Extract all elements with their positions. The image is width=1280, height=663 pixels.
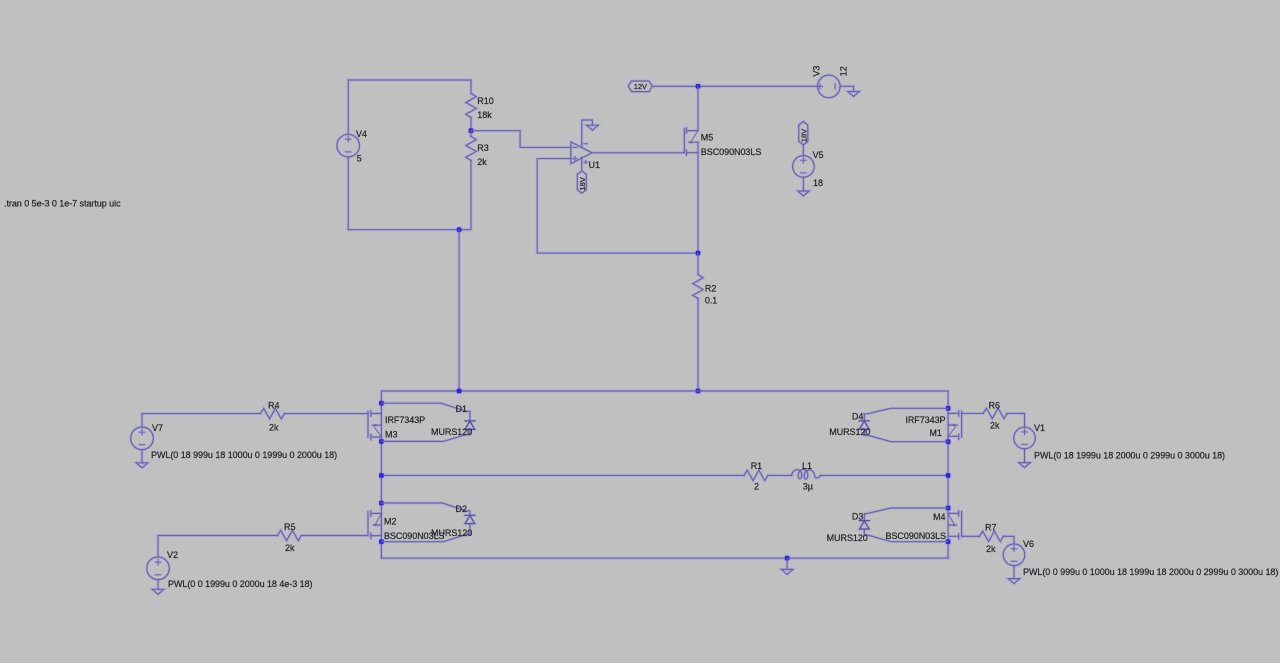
- svg-text:18: 18: [813, 178, 823, 188]
- svg-text:V6: V6: [1023, 539, 1034, 549]
- svg-text:3µ: 3µ: [803, 482, 813, 492]
- svg-text:18V: 18V: [799, 128, 808, 142]
- svg-text:IRF7343P: IRF7343P: [385, 415, 425, 425]
- svg-text:R10: R10: [477, 96, 493, 106]
- svg-text:18k: 18k: [477, 110, 492, 120]
- svg-text:V7: V7: [152, 423, 163, 433]
- svg-text:V3: V3: [811, 66, 821, 77]
- svg-text:M2: M2: [384, 517, 396, 527]
- svg-text:D2: D2: [456, 504, 467, 514]
- svg-text:12V: 12V: [634, 82, 648, 91]
- svg-text:MURS120: MURS120: [431, 528, 472, 538]
- svg-text:L1: L1: [802, 461, 812, 471]
- svg-text:5: 5: [357, 153, 362, 163]
- svg-text:V5: V5: [813, 150, 824, 160]
- svg-text:PWL(0 0 1999u 0 2000u 18 4e-3: PWL(0 0 1999u 0 2000u 18 4e-3 18): [168, 579, 313, 589]
- svg-text:R1: R1: [751, 461, 762, 471]
- svg-text:R6: R6: [989, 401, 1000, 411]
- svg-text:2k: 2k: [269, 423, 279, 433]
- svg-text:18V: 18V: [578, 176, 587, 190]
- svg-text:R4: R4: [268, 401, 279, 411]
- svg-text:D3: D3: [852, 511, 863, 521]
- svg-text:PWL(0 0 999u 0 1000u 18 1999u: PWL(0 0 999u 0 1000u 18 1999u 18 2000u 0…: [1023, 567, 1278, 577]
- svg-text:R7: R7: [985, 523, 996, 533]
- svg-text:.tran 0 5e-3 0 1e-7 startup ui: .tran 0 5e-3 0 1e-7 startup uic: [4, 199, 121, 209]
- svg-text:MURS120: MURS120: [431, 427, 472, 437]
- svg-text:R2: R2: [705, 284, 716, 294]
- svg-text:MURS120: MURS120: [829, 427, 870, 437]
- svg-text:2k: 2k: [477, 157, 487, 167]
- svg-text:V1: V1: [1034, 423, 1045, 433]
- svg-text:R3: R3: [477, 143, 488, 153]
- svg-text:IRF7343P: IRF7343P: [905, 415, 945, 425]
- SECTION: texts: [4, 66, 1278, 589]
- svg-text:0.1: 0.1: [705, 296, 717, 306]
- svg-text:PWL(0 18 1999u 18 2000u 0 2999: PWL(0 18 1999u 18 2000u 0 2999u 0 3000u …: [1034, 450, 1225, 460]
- svg-text:BSC090N03LS: BSC090N03LS: [886, 531, 947, 541]
- svg-text:D4: D4: [852, 411, 863, 421]
- svg-text:V2: V2: [167, 550, 178, 560]
- svg-text:12: 12: [839, 66, 849, 76]
- svg-text:M1: M1: [929, 428, 941, 438]
- svg-text:R5: R5: [284, 522, 295, 532]
- svg-text:BSC090N03LS: BSC090N03LS: [701, 147, 762, 157]
- svg-text:M3: M3: [385, 430, 397, 440]
- svg-text:M5: M5: [701, 132, 713, 142]
- svg-text:U1: U1: [589, 160, 600, 170]
- svg-text:MURS120: MURS120: [827, 533, 868, 543]
- svg-text:2k: 2k: [990, 421, 1000, 431]
- svg-text:2k: 2k: [986, 544, 996, 554]
- svg-text:2k: 2k: [285, 543, 295, 553]
- svg-text:2: 2: [754, 482, 759, 492]
- svg-text:V4: V4: [356, 129, 367, 139]
- svg-text:PWL(0 18 999u 18 1000u 0 1999u: PWL(0 18 999u 18 1000u 0 1999u 0 2000u 1…: [151, 450, 337, 460]
- svg-text:M4: M4: [933, 512, 945, 522]
- svg-text:D1: D1: [456, 404, 467, 414]
